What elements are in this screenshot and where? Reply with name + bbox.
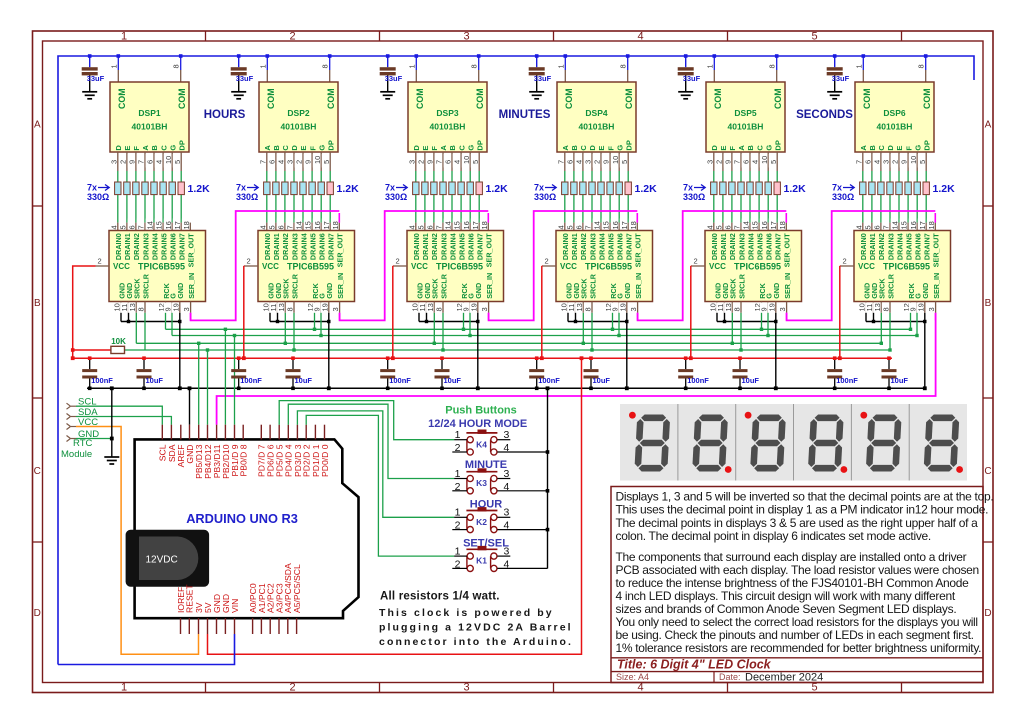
svg-text:F: F [606,146,615,151]
svg-text:40101BH: 40101BH [132,122,168,132]
svg-text:C: C [281,145,290,151]
svg-text:7: 7 [258,160,267,164]
svg-text:40101BH: 40101BH [579,122,615,132]
svg-text:19: 19 [469,303,478,311]
svg-text:DRAIN4: DRAIN4 [895,233,904,260]
svg-text:G: G [913,145,922,151]
svg-text:SRCLR: SRCLR [886,273,895,299]
svg-text:40101BH: 40101BH [877,122,913,132]
svg-text:100nF: 100nF [836,376,858,385]
svg-text:5: 5 [864,225,873,229]
svg-text:1: 1 [455,468,461,480]
svg-text:100nF: 100nF [91,376,113,385]
svg-text:Push Buttons: Push Buttons [445,405,517,417]
svg-text:SER_OUT: SER_OUT [932,233,941,268]
svg-text:8: 8 [470,64,479,68]
svg-text:14: 14 [742,221,751,229]
svg-text:1: 1 [854,64,863,68]
svg-text:19: 19 [618,303,627,311]
svg-text:5: 5 [268,225,277,229]
svg-text:330Ω: 330Ω [683,192,705,202]
svg-text:K1: K1 [476,556,487,566]
svg-text:COM: COM [326,88,336,109]
svg-text:2: 2 [396,257,400,266]
svg-text:SER_OUT: SER_OUT [634,233,643,268]
svg-text:SER_IN: SER_IN [634,273,643,299]
svg-text:3: 3 [504,507,510,519]
svg-text:10uF: 10uF [444,376,462,385]
svg-text:D: D [710,145,719,151]
svg-text:13: 13 [128,303,137,311]
svg-text:1: 1 [556,64,565,68]
svg-text:COM: COM [177,88,187,109]
svg-text:10: 10 [909,156,918,164]
svg-text:SER_IN: SER_IN [932,273,941,299]
svg-text:5: 5 [715,225,724,229]
svg-text:7: 7 [733,160,742,164]
svg-text:connector into the Arduino.: connector into the Arduino. [379,636,573,648]
svg-text:SER_IN: SER_IN [336,273,345,299]
svg-text:6: 6 [873,225,882,229]
svg-text:DRAIN2: DRAIN2 [728,233,737,260]
svg-text:15: 15 [453,221,462,229]
svg-text:C: C [159,145,168,151]
svg-text:1: 1 [455,429,461,441]
svg-text:15: 15 [602,221,611,229]
svg-text:8: 8 [917,64,926,68]
svg-text:2: 2 [295,160,304,164]
svg-text:9: 9 [724,160,733,164]
svg-text:7: 7 [882,225,891,229]
svg-text:SER_OUT: SER_OUT [783,233,792,268]
svg-text:DRAIN2: DRAIN2 [430,233,439,260]
svg-text:10uF: 10uF [742,376,760,385]
svg-text:B: B [150,145,159,151]
svg-text:2: 2 [694,257,698,266]
svg-text:December 2024: December 2024 [745,672,823,684]
svg-text:4: 4 [504,442,510,454]
svg-text:7: 7 [733,225,742,229]
svg-text:5: 5 [417,225,426,229]
svg-text:6: 6 [426,225,435,229]
svg-text:DRAIN7: DRAIN7 [923,233,932,260]
svg-text:6: 6 [444,160,453,164]
svg-text:2: 2 [455,558,461,570]
svg-text:2: 2 [593,160,602,164]
svg-text:7: 7 [137,160,146,164]
svg-text:G: G [168,145,177,151]
svg-text:3: 3 [109,160,118,164]
svg-text:4: 4 [277,160,286,164]
svg-text:7: 7 [435,225,444,229]
svg-text:10K: 10K [111,337,126,346]
svg-text:17: 17 [173,221,182,229]
svg-text:19: 19 [916,303,925,311]
svg-text:5: 5 [769,160,778,164]
svg-text:DRAIN0: DRAIN0 [114,233,123,260]
svg-text:14: 14 [891,221,900,229]
svg-text:330Ω: 330Ω [534,192,556,202]
svg-text:COM: COM [773,88,783,109]
svg-text:9: 9 [426,160,435,164]
svg-text:33uF: 33uF [832,74,850,83]
svg-text:13: 13 [873,303,882,311]
svg-text:A: A [439,145,448,151]
svg-text:DP: DP [922,140,931,150]
svg-text:1.2K: 1.2K [188,183,211,195]
svg-text:2: 2 [119,160,128,164]
svg-text:Date:: Date: [719,672,741,682]
svg-text:8: 8 [137,307,146,311]
svg-text:2: 2 [545,257,549,266]
svg-text:colon. The decimal point in d: colon. The decimal point in display 6 in… [616,529,931,543]
svg-text:16: 16 [760,221,769,229]
svg-text:100nF: 100nF [687,376,709,385]
svg-text:19: 19 [171,303,180,311]
svg-text:9: 9 [304,160,313,164]
svg-text:DSP2: DSP2 [287,108,309,118]
svg-text:4: 4 [109,225,118,229]
svg-text:DRAIN4: DRAIN4 [746,233,755,260]
svg-text:5: 5 [173,160,182,164]
svg-text:10: 10 [611,156,620,164]
svg-text:E: E [421,146,430,151]
svg-text:100nF: 100nF [389,376,411,385]
svg-text:A: A [141,145,150,151]
svg-text:SRCK: SRCK [431,278,440,299]
svg-text:5: 5 [918,160,927,164]
svg-text:This clock is powered by: This clock is powered by [379,607,554,619]
svg-text:15: 15 [155,221,164,229]
svg-text:SRCK: SRCK [729,278,738,299]
svg-text:33uF: 33uF [236,74,254,83]
svg-text:D: D [984,608,991,619]
svg-text:SRCK: SRCK [580,278,589,299]
svg-text:3: 3 [882,160,891,164]
svg-text:DRAIN4: DRAIN4 [299,233,308,260]
svg-text:E: E [895,146,904,151]
svg-text:SRCLR: SRCLR [141,273,150,299]
svg-text:1: 1 [109,64,118,68]
svg-text:G: G [764,145,773,151]
svg-text:4: 4 [258,225,267,229]
svg-text:3: 3 [480,307,489,311]
svg-text:16: 16 [611,221,620,229]
svg-text:3: 3 [331,307,340,311]
svg-text:2: 2 [715,160,724,164]
svg-text:B: B [570,145,579,151]
svg-text:7: 7 [286,225,295,229]
svg-text:DRAIN1: DRAIN1 [272,233,281,260]
svg-text:1.2K: 1.2K [486,183,509,195]
svg-text:DRAIN1: DRAIN1 [421,233,430,260]
svg-text:This uses the decimal point in: This uses the decimal point in display 1… [616,503,989,517]
svg-text:C: C [984,466,991,477]
svg-text:4 inch LED displays. This circ: 4 inch LED displays. This circuit design… [616,589,956,603]
svg-text:GND: GND [325,283,334,299]
svg-text:DRAIN3: DRAIN3 [737,233,746,260]
svg-text:6: 6 [566,160,575,164]
svg-text:3: 3 [705,160,714,164]
svg-text:19: 19 [767,303,776,311]
svg-text:8: 8 [286,307,295,311]
svg-text:A: A [34,120,41,131]
svg-text:15: 15 [751,221,760,229]
svg-text:330Ω: 330Ω [385,192,407,202]
svg-text:2: 2 [247,257,251,266]
svg-text:4: 4 [453,160,462,164]
svg-text:DRAIN7: DRAIN7 [625,233,634,260]
svg-text:F: F [132,146,141,151]
svg-text:PD0/D 0: PD0/D 0 [320,444,330,477]
svg-text:SRCLR: SRCLR [737,273,746,299]
svg-text:DRAIN6: DRAIN6 [616,233,625,260]
svg-text:COM: COM [266,88,276,109]
svg-text:A: A [263,145,272,151]
svg-text:4: 4 [751,160,760,164]
svg-text:DRAIN3: DRAIN3 [588,233,597,260]
svg-text:ARDUINO UNO R3: ARDUINO UNO R3 [186,511,298,526]
svg-text:3: 3 [504,546,510,558]
svg-text:8: 8 [321,64,330,68]
svg-text:17: 17 [322,221,331,229]
svg-text:B: B [448,145,457,151]
svg-text:plugging a 12VDC 2A Barrel: plugging a 12VDC 2A Barrel [379,622,573,634]
svg-text:DRAIN6: DRAIN6 [765,233,774,260]
svg-text:6: 6 [128,225,137,229]
svg-text:TPIC6B595: TPIC6B595 [287,262,334,272]
svg-text:10uF: 10uF [295,376,313,385]
svg-text:DRAIN3: DRAIN3 [886,233,895,260]
svg-text:5: 5 [322,160,331,164]
svg-text:D: D [886,145,895,151]
svg-text:SER_OUT: SER_OUT [336,233,345,268]
svg-text:PB0/D 8: PB0/D 8 [239,444,249,476]
svg-text:40101BH: 40101BH [728,122,764,132]
svg-text:4: 4 [873,160,882,164]
svg-text:17: 17 [769,221,778,229]
svg-text:8: 8 [584,307,593,311]
svg-text:4: 4 [155,160,164,164]
svg-text:A5/PC5/SCL: A5/PC5/SCL [292,564,302,613]
svg-text:Size: A4: Size: A4 [616,672,649,682]
svg-text:SER_IN: SER_IN [485,273,494,299]
svg-text:9: 9 [602,160,611,164]
svg-text:DRAIN5: DRAIN5 [308,233,317,260]
svg-text:DSP6: DSP6 [883,108,905,118]
svg-text:17: 17 [471,221,480,229]
svg-text:SRCLR: SRCLR [439,273,448,299]
svg-text:Module: Module [61,449,92,460]
svg-text:3: 3 [629,307,638,311]
svg-text:DRAIN6: DRAIN6 [318,233,327,260]
svg-text:8: 8 [733,307,742,311]
svg-text:2: 2 [98,257,102,266]
svg-text:1: 1 [121,682,127,694]
svg-text:DRAIN3: DRAIN3 [290,233,299,260]
svg-text:DRAIN3: DRAIN3 [141,233,150,260]
svg-text:TPIC6B595: TPIC6B595 [883,262,930,272]
svg-text:G: G [466,145,475,151]
svg-text:DP: DP [177,140,186,150]
svg-text:18: 18 [182,221,191,229]
svg-text:100nF: 100nF [538,376,560,385]
svg-text:D: D [588,145,597,151]
svg-text:GND: GND [176,283,185,299]
svg-text:3: 3 [407,160,416,164]
svg-text:2: 2 [289,31,295,43]
svg-text:DRAIN0: DRAIN0 [263,233,272,260]
svg-text:B: B [985,298,992,309]
svg-text:5: 5 [566,225,575,229]
svg-text:4: 4 [504,558,510,570]
svg-text:2: 2 [417,160,426,164]
svg-text:DRAIN0: DRAIN0 [859,233,868,260]
svg-text:1: 1 [258,64,267,68]
svg-text:10uF: 10uF [593,376,611,385]
svg-text:8: 8 [172,64,181,68]
svg-text:1% tolerance resistors are rec: 1% tolerance resistors are recommended f… [616,641,982,655]
svg-text:100nF: 100nF [240,376,262,385]
svg-text:TPIC6B595: TPIC6B595 [585,262,632,272]
svg-text:13: 13 [426,303,435,311]
svg-text:3: 3 [778,307,787,311]
svg-text:1: 1 [705,64,714,68]
svg-text:2: 2 [891,160,900,164]
svg-text:13: 13 [724,303,733,311]
svg-text:F: F [430,146,439,151]
svg-text:K3: K3 [476,478,487,488]
svg-text:8: 8 [768,64,777,68]
svg-text:DP: DP [773,140,782,150]
svg-text:7: 7 [137,225,146,229]
svg-text:7x: 7x [236,183,246,193]
svg-text:VIN: VIN [230,599,240,613]
svg-text:7x: 7x [534,183,544,193]
svg-text:6: 6 [742,160,751,164]
svg-text:A: A [737,145,746,151]
svg-text:D: D [34,608,41,619]
svg-text:5: 5 [811,31,817,43]
svg-text:SECONDS: SECONDS [796,109,853,121]
svg-text:DRAIN1: DRAIN1 [123,233,132,260]
svg-text:RTC: RTC [73,438,92,449]
svg-text:DRAIN0: DRAIN0 [412,233,421,260]
svg-text:DRAIN7: DRAIN7 [327,233,336,260]
svg-text:DRAIN6: DRAIN6 [914,233,923,260]
svg-text:GND: GND [921,283,930,299]
svg-text:DP: DP [624,140,633,150]
svg-text:COM: COM [624,88,634,109]
svg-text:TPIC6B595: TPIC6B595 [138,262,185,272]
svg-text:4: 4 [575,160,584,164]
svg-text:14: 14 [146,221,155,229]
svg-text:DRAIN0: DRAIN0 [710,233,719,260]
svg-text:1: 1 [121,31,127,43]
svg-text:DRAIN4: DRAIN4 [150,233,159,260]
svg-text:B: B [746,145,755,151]
svg-text:1.2K: 1.2K [635,183,658,195]
svg-text:3: 3 [463,682,469,694]
svg-text:DRAIN4: DRAIN4 [597,233,606,260]
svg-text:5: 5 [471,160,480,164]
svg-text:sizes and brands of Common Ano: sizes and brands of Common Anode Seven S… [616,602,957,616]
svg-text:4: 4 [504,481,510,493]
svg-text:2: 2 [455,442,461,454]
svg-text:33uF: 33uF [385,74,403,83]
svg-text:E: E [123,146,132,151]
svg-text:C: C [579,145,588,151]
svg-text:E: E [597,146,606,151]
svg-text:C: C [877,145,886,151]
svg-text:40101BH: 40101BH [430,122,466,132]
svg-text:7: 7 [584,225,593,229]
svg-text:G: G [317,145,326,151]
svg-text:1: 1 [407,64,416,68]
svg-text:3: 3 [504,468,510,480]
svg-text:SER_OUT: SER_OUT [485,233,494,268]
svg-text:A: A [985,120,992,131]
svg-text:B: B [272,145,281,151]
svg-text:33uF: 33uF [87,74,105,83]
svg-text:5: 5 [119,225,128,229]
svg-text:DRAIN2: DRAIN2 [579,233,588,260]
svg-text:6: 6 [724,225,733,229]
svg-text:K4: K4 [476,439,487,449]
svg-text:G: G [615,145,624,151]
svg-text:10: 10 [313,156,322,164]
svg-text:The decimal points in displays: The decimal points in displays 3 & 5 are… [616,516,979,530]
svg-text:COM: COM [922,88,932,109]
svg-text:VCC: VCC [262,262,279,271]
svg-text:3: 3 [504,429,510,441]
svg-text:The components that surround e: The components that surround each displa… [616,550,967,564]
svg-text:DRAIN7: DRAIN7 [476,233,485,260]
svg-text:10uF: 10uF [146,376,164,385]
svg-text:SRCLR: SRCLR [290,273,299,299]
svg-text:COM: COM [713,88,723,109]
svg-text:1.2K: 1.2K [933,183,956,195]
svg-text:6: 6 [146,160,155,164]
svg-text:17: 17 [918,221,927,229]
svg-text:16: 16 [313,221,322,229]
svg-text:E: E [719,146,728,151]
svg-text:4: 4 [705,225,714,229]
svg-text:13: 13 [575,303,584,311]
svg-text:DSP4: DSP4 [585,108,607,118]
svg-text:10: 10 [164,156,173,164]
svg-text:7: 7 [854,160,863,164]
svg-text:F: F [904,146,913,151]
svg-text:15: 15 [304,221,313,229]
svg-text:to reduce the intense brightne: to reduce the intense brightness of the … [616,576,970,590]
svg-text:HOURS: HOURS [204,109,246,121]
svg-text:33uF: 33uF [683,74,701,83]
svg-text:DRAIN6: DRAIN6 [169,233,178,260]
svg-text:7x: 7x [683,183,693,193]
svg-text:6: 6 [575,225,584,229]
svg-text:40101BH: 40101BH [281,122,317,132]
svg-text:7x: 7x [87,183,97,193]
svg-text:16: 16 [462,221,471,229]
svg-text:1.2K: 1.2K [337,183,360,195]
svg-text:GND: GND [474,283,483,299]
svg-text:SER_OUT: SER_OUT [187,233,196,268]
svg-text:4: 4 [637,682,643,694]
svg-text:17: 17 [620,221,629,229]
svg-text:DRAIN5: DRAIN5 [457,233,466,260]
svg-text:DRAIN4: DRAIN4 [448,233,457,260]
